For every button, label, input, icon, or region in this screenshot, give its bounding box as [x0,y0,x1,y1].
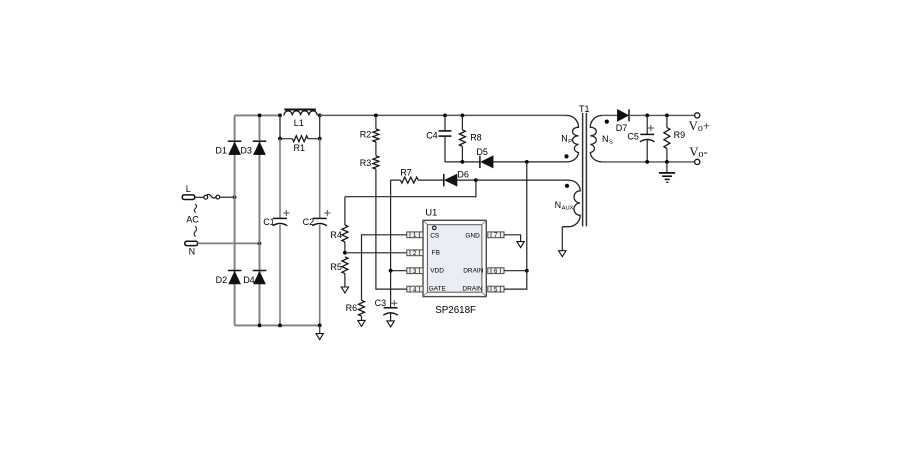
svg-text:L1: L1 [294,118,304,128]
ground R6 [358,320,365,326]
terminal L (line input) [182,195,194,200]
wire bottom rail [235,324,320,326]
wire N to bridge [198,242,260,244]
capacitor C1 [273,217,287,219]
Naux polarity dot [565,184,569,188]
svg-text:D3: D3 [240,145,252,155]
wire L input to fuse [195,196,204,198]
node C5 top [645,114,649,118]
wire D5 to primary bottom [493,161,566,163]
resistor R5 [342,257,348,274]
svg-text:FB: FB [432,250,440,257]
svg-text:VDD: VDD [430,267,444,274]
wire top rail to transformer [320,114,567,116]
svg-text:P: P [568,139,572,145]
capacitor C5 [646,115,648,134]
diode D6 [418,179,444,181]
inductor L1 [284,111,317,116]
ground primary bottom [319,325,321,333]
wire fuse to bridge node [220,196,235,198]
wire VDD to pin3 [391,270,407,272]
wire D7 to Vo+ [629,114,694,116]
svg-text:D5: D5 [476,147,488,157]
svg-text:D6: D6 [457,170,469,180]
resistor R1 [280,138,292,140]
diode D4 [253,270,267,272]
svg-text:CS: CS [430,233,440,240]
wire drain vertical [526,162,528,271]
fuse F1 [204,195,208,199]
node R2 top [374,114,378,118]
wire CS to pin1 [362,235,407,300]
wire snubber bottom [445,161,480,163]
U1 pin 4 [407,286,423,292]
wire C2 vertical [319,139,321,219]
wire top rail bridge to L1 [235,114,280,116]
U1 pin1 indicator [433,226,437,230]
node drain to primary [525,160,529,164]
AC source squiggle lower [194,226,197,236]
resistor R6 [359,300,365,316]
wire L1 left drop [279,115,281,138]
transformer primary Np [567,115,579,162]
wire D6 anode to aux node [457,179,476,181]
wire R3 down to GATE [376,169,407,289]
svg-text:C5: C5 [627,131,639,141]
wire aux node to divider [345,180,476,197]
node R9 top [665,114,669,118]
wire R7 to VDD [390,180,392,271]
terminal N (neutral input) [185,241,198,245]
node D4 bottom [258,324,262,328]
ground C3 [387,321,394,327]
node C2 bottom ground [318,324,322,328]
svg-text:R1: R1 [294,143,306,153]
wire R2 to R3 [375,142,377,156]
diode D2 [228,270,242,272]
ground Naux [559,251,566,257]
svg-text:DRAIN: DRAIN [463,268,484,275]
ground earth secondary [666,162,668,173]
svg-text:R6: R6 [346,303,358,313]
svg-text:GND: GND [465,232,480,239]
node aux rail [474,178,478,182]
U1 pin 7 [488,232,504,238]
node D3 top rail [258,114,262,118]
svg-text:T1: T1 [579,104,590,114]
node L1 left [278,114,282,118]
wire bridge right vertical [259,115,261,325]
svg-text:L: L [186,184,191,194]
svg-text:R9: R9 [674,130,686,140]
diode D3 [253,140,267,142]
capacitor C4 [444,115,446,130]
node R8 bottom [461,160,465,164]
wire FB to pin2 [345,252,407,254]
svg-text:R5: R5 [330,262,342,272]
svg-text:Vo-: Vo- [689,145,708,160]
svg-text:N: N [561,134,568,144]
IC U1 SP2618F body [423,220,486,296]
Ns polarity dot [605,120,609,124]
node R1 left [278,137,282,141]
wire pin5 to drain net [504,271,527,289]
node C4 top [443,114,447,118]
diode D7 [617,110,628,122]
AC source squiggle upper [194,204,196,213]
node VDD [389,269,393,273]
node L-bridge junction [233,195,237,199]
resistor R8 [461,115,463,129]
node L1 right [318,114,322,118]
U1 pin 1 [407,232,423,238]
node C1 bottom [278,324,282,328]
svg-text:D1: D1 [215,145,227,155]
wire Ns top to D7 [602,114,617,116]
wire pin6 to drain net [504,270,527,272]
svg-text:C1: C1 [263,217,275,227]
svg-text:R8: R8 [470,133,482,143]
capacitor C2 [313,217,327,219]
svg-text:D2: D2 [216,275,228,285]
svg-text:N: N [555,200,562,210]
wire C1 vertical [279,139,281,219]
svg-text:N: N [602,134,609,144]
wire GND pin to ground [504,235,521,242]
ground R5 [341,287,348,293]
capacitor C3 [384,307,398,309]
wire divider drop [344,197,346,225]
wire Ns bottom rail Vo- [602,161,694,163]
node N-bridge junction [258,242,262,246]
resistor R7 [391,179,401,181]
Np polarity dot [564,154,568,158]
terminal Vo+ [695,113,700,118]
node R9 bottom [665,160,669,164]
U1 pin 2 [407,250,423,256]
ground GND pin [517,242,524,248]
wire L1 right drop [319,115,321,138]
svg-text:C4: C4 [426,130,438,140]
wire aux node to Naux [476,179,569,181]
node FB divider [343,251,347,255]
svg-text:R3: R3 [360,158,372,168]
resistor R4 [342,225,348,242]
svg-text:R2: R2 [360,129,372,139]
svg-text:DRAIN: DRAIN [462,286,483,293]
node C5 bottom [645,160,649,164]
wire Naux to ground [561,227,563,251]
svg-text:N: N [189,247,196,257]
node drain [525,269,529,273]
svg-text:Vo+: Vo+ [689,119,710,134]
svg-text:R4: R4 [330,230,342,240]
U1 pin 3 [407,268,423,274]
svg-text:U1: U1 [425,207,437,218]
U1 pin 5 [488,286,504,292]
transformer T1 core [582,113,584,226]
svg-text:C2: C2 [303,217,315,227]
node R1 right [318,137,322,141]
svg-text:R7: R7 [400,167,412,177]
svg-text:C3: C3 [375,298,387,308]
resistor R9 [666,115,668,127]
resistor R3 [373,156,379,169]
svg-text:GATE: GATE [429,286,447,293]
terminal Vo- [695,159,700,164]
diode D5 [479,156,481,168]
diode D1 [228,140,242,142]
svg-text:AC: AC [186,214,199,224]
U1 pin 6 [488,268,504,274]
svg-text:SP2618F: SP2618F [435,305,476,316]
resistor R2 [375,115,377,129]
transformer secondary Ns [590,115,602,162]
wire VDD to C3 [390,271,392,308]
wire bridge left vertical [234,115,236,325]
svg-text:D4: D4 [243,275,255,285]
node R8 top [461,114,465,118]
svg-text:S: S [609,139,613,145]
transformer aux winding Naux [562,180,580,227]
svg-text:AUX: AUX [562,205,574,211]
svg-text:D7: D7 [616,123,628,133]
